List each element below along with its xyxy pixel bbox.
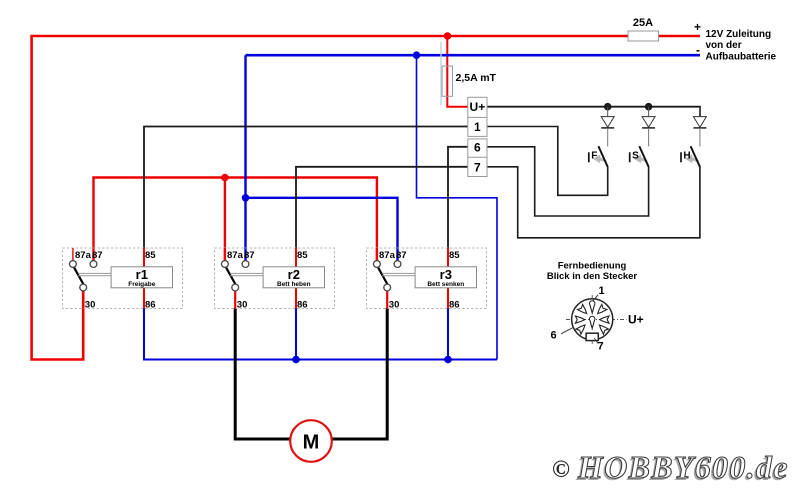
wire: r2 pin 86 to negative bus xyxy=(295,309,297,360)
svg-text:87: 87 xyxy=(244,250,255,261)
svg-text:6: 6 xyxy=(551,330,557,342)
wire: r3 pin 86 to negative bus xyxy=(447,309,449,360)
wire: blue drop to r2 pin 87 xyxy=(244,55,246,261)
coil box r2 xyxy=(263,267,324,288)
connector block X1 pins U+ / 1 xyxy=(468,97,487,136)
pin lower-left of DIN plug xyxy=(576,322,588,334)
svg-text:87a: 87a xyxy=(379,250,396,261)
svg-text:F: F xyxy=(591,151,597,162)
motor M xyxy=(290,420,332,462)
svg-text:H: H xyxy=(683,151,690,162)
svg-text:Bett heben: Bett heben xyxy=(277,281,311,288)
wire: r3 pin 87a lead xyxy=(376,248,378,261)
svg-text:1: 1 xyxy=(599,285,605,297)
wire: blue branch to r3 pin 87 xyxy=(246,198,398,262)
pin upper-left of DIN plug xyxy=(578,304,590,316)
label: Fernbedienung heading xyxy=(547,260,638,282)
relay r1 enclosure (dashed) xyxy=(63,248,183,309)
svg-text:87a: 87a xyxy=(227,250,244,261)
switch push-button F xyxy=(589,146,608,167)
svg-text:30: 30 xyxy=(389,299,400,310)
svg-text:von der: von der xyxy=(706,40,742,51)
switch: r1 contact blade 87a-30 xyxy=(74,267,84,285)
pin: r1 terminal 30 xyxy=(80,284,87,291)
linkage: r1 actuator xyxy=(78,273,111,275)
wire: connector pin 1 to relay r1 coil 85 xyxy=(144,127,468,249)
wire: r3 coil leads 85/86 xyxy=(447,248,449,309)
svg-text:30: 30 xyxy=(85,299,96,310)
pin left of DIN plug xyxy=(575,316,584,323)
svg-text:30: 30 xyxy=(237,299,248,310)
connector key notch xyxy=(586,333,598,340)
diode D2 (LED in button S) xyxy=(642,107,655,147)
fuse F2 2.5A mT xyxy=(442,66,496,96)
wire: connector pin 6 to relay r3 coil 85 xyxy=(448,147,468,248)
switch: r3 contact blade 87a-30 xyxy=(378,267,388,285)
pin: r1 terminal 87a xyxy=(70,261,77,268)
svg-text:1: 1 xyxy=(474,120,481,134)
connector block X1 pins 6 / 7 xyxy=(468,139,487,177)
wire: faint guide line left of 2.5A fuse xyxy=(440,42,442,105)
wire: U+ rail to push buttons xyxy=(487,107,700,117)
pin: r3 terminal 30 xyxy=(384,284,391,291)
linkage: r3 actuator xyxy=(382,273,415,275)
pin 1 of DIN plug (top) xyxy=(590,301,595,313)
switch push-button H xyxy=(681,146,700,167)
pin: r3 terminal 87 xyxy=(394,261,401,268)
wire: button H to connector pin 7 xyxy=(487,166,700,238)
label: plug pin 7 xyxy=(594,338,603,352)
pin: r2 terminal 30 xyxy=(232,284,239,291)
svg-text:6: 6 xyxy=(474,141,481,155)
node: blue junction left of r2 87 xyxy=(242,194,250,202)
wire: button S to connector pin 6 xyxy=(487,147,649,216)
wire: r3 pin 30 to motor right terminal xyxy=(332,309,388,440)
svg-text:87: 87 xyxy=(92,250,103,261)
connector J1 DIN plug face xyxy=(566,295,627,345)
svg-text:+: + xyxy=(694,20,701,34)
wire: button F to connector pin 1 xyxy=(487,127,608,196)
wire: r1 pin 87a stub (n.c.) xyxy=(72,248,74,261)
svg-text:87: 87 xyxy=(396,250,407,261)
wire: +12V red supply loop from battery + to relay r1 pin 30 xyxy=(32,36,700,360)
wire: blue bottom negative bus xyxy=(144,309,497,360)
pin: r1 terminal 87 xyxy=(90,261,97,268)
fuse F1 25A xyxy=(628,17,658,41)
wire: r2 pin 30 to motor left terminal xyxy=(235,309,290,440)
svg-text:M: M xyxy=(303,432,320,454)
pin: r3 terminal 87a xyxy=(374,261,381,268)
svg-text:U+: U+ xyxy=(628,313,644,327)
pin right of DIN plug xyxy=(600,316,609,323)
wire: r3 pin 30 lead xyxy=(386,291,388,309)
svg-text:2,5A mT: 2,5A mT xyxy=(456,72,497,84)
relay r2 enclosure (dashed) xyxy=(215,248,335,309)
wire: red feed through 2.5A fuse to connector U+ xyxy=(447,36,468,107)
switch push-button S xyxy=(630,146,649,167)
wire: red net from r1 pin 87 to r2/r3 pin 87a xyxy=(94,178,377,262)
svg-text:Blick in den Stecker: Blick in den Stecker xyxy=(547,271,638,282)
node: blue junction r2 86 xyxy=(292,356,300,364)
wire: red drop to r2 pin 87a xyxy=(224,178,226,262)
svg-text:-: - xyxy=(696,43,700,57)
linkage: r2 actuator xyxy=(230,273,263,275)
svg-text:86: 86 xyxy=(449,299,460,310)
svg-text:©: © xyxy=(552,457,570,483)
svg-text:HOBBY600.de: HOBBY600.de xyxy=(577,449,789,485)
svg-text:Bett senken: Bett senken xyxy=(427,281,464,288)
relay r3 enclosure (dashed) xyxy=(367,248,487,309)
svg-text:12V Zuleitung: 12V Zuleitung xyxy=(706,29,772,40)
wire: r1 pin 30 lead xyxy=(82,291,84,309)
pin: r2 terminal 87a xyxy=(222,261,229,268)
diode D3 (LED in button H) xyxy=(693,107,706,147)
switch: r2 contact blade 87a-30 xyxy=(226,267,236,285)
node: blue junction r3 86 xyxy=(444,356,452,364)
pin center of DIN plug xyxy=(590,316,595,328)
wire: r2 pin 87a lead xyxy=(224,248,226,261)
label: plug pin 1 xyxy=(593,285,604,301)
wire: blue negative supply line from battery - xyxy=(246,54,701,57)
pin upper-right of DIN plug xyxy=(595,304,607,316)
svg-text:85: 85 xyxy=(145,250,156,261)
coil box r3 xyxy=(415,267,476,288)
svg-text:Fernbedienung: Fernbedienung xyxy=(558,260,627,271)
pin: r2 terminal 87 xyxy=(242,261,249,268)
label: 12V Zuleitung von der Aufbaubatterie xyxy=(706,29,777,62)
pin lower-right of DIN plug xyxy=(597,322,609,334)
wire: r2 pin 30 lead xyxy=(234,291,236,309)
wire: connector pin 7 to relay r2 coil 85 xyxy=(296,167,468,248)
node: junction diode D1 xyxy=(604,103,612,111)
svg-text:U+: U+ xyxy=(470,100,486,114)
svg-text:85: 85 xyxy=(449,250,460,261)
svg-text:7: 7 xyxy=(474,160,481,174)
diode D1 (LED in button F) xyxy=(601,107,614,147)
wire: thin blue drop feeding bottom negative bus xyxy=(417,55,498,359)
wire: r1 coil leads 85/86 xyxy=(143,248,145,309)
svg-text:S: S xyxy=(632,151,639,162)
svg-text:7: 7 xyxy=(598,341,604,353)
node: red junction at 2.5A fuse tap xyxy=(444,32,452,40)
wire: r2 coil leads 85/86 xyxy=(295,248,297,309)
label: plug pin 6 xyxy=(551,328,573,342)
svg-text:86: 86 xyxy=(297,299,308,310)
node: blue junction at top bus xyxy=(413,51,421,59)
node: red junction above r2 87a xyxy=(221,174,229,182)
coil box r1 xyxy=(111,267,172,288)
svg-text:Aufbaubatterie: Aufbaubatterie xyxy=(706,51,777,62)
node: junction diode D2 xyxy=(645,103,653,111)
svg-text:86: 86 xyxy=(145,299,156,310)
svg-text:Freigabe: Freigabe xyxy=(128,281,155,288)
svg-text:25A: 25A xyxy=(633,17,653,29)
svg-text:85: 85 xyxy=(297,250,308,261)
svg-text:87a: 87a xyxy=(75,250,92,261)
